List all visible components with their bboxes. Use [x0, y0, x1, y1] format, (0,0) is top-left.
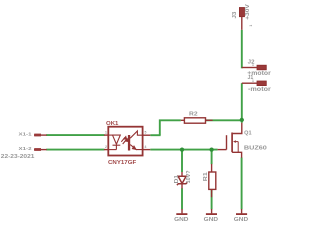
- svg-text:Q1: Q1: [244, 131, 252, 137]
- svg-text:1: 1: [252, 79, 254, 83]
- svg-text:GND: GND: [204, 217, 219, 223]
- svg-text:BUZ60: BUZ60: [244, 146, 267, 152]
- svg-text:1: 1: [105, 130, 107, 134]
- svg-text:X1-2: X1-2: [19, 146, 32, 152]
- svg-text:CNY17GF: CNY17GF: [108, 160, 136, 166]
- svg-text:4: 4: [145, 145, 147, 149]
- svg-text:GND: GND: [174, 217, 189, 223]
- svg-text:GND: GND: [234, 217, 249, 223]
- svg-text:22-23-2021: 22-23-2021: [1, 154, 35, 160]
- svg-text:X1-1: X1-1: [19, 131, 32, 137]
- svg-text:R1: R1: [203, 172, 209, 181]
- svg-text:OK1: OK1: [106, 121, 119, 127]
- svg-text:10V?: 10V?: [186, 170, 192, 183]
- svg-text:D1: D1: [174, 175, 180, 184]
- svg-text:1: 1: [249, 25, 253, 27]
- svg-text:+30V: +30V: [245, 4, 251, 20]
- svg-text:-motor: -motor: [248, 87, 272, 93]
- svg-text:R2: R2: [189, 112, 198, 118]
- svg-text:2: 2: [105, 145, 107, 149]
- svg-text:5: 5: [145, 130, 147, 134]
- svg-text:J3: J3: [232, 11, 238, 18]
- svg-text:1: 1: [252, 63, 254, 67]
